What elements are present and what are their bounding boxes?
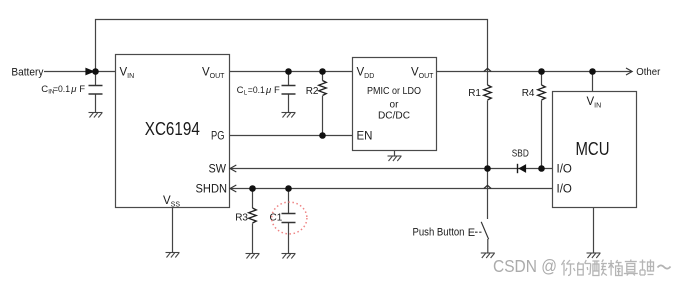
wire PMIC VOUT to Other [437,71,632,73]
wire VSS to ground [172,208,174,253]
crossover hop push button over SHDN line [484,185,491,188]
node R3 junction [249,185,256,192]
node R4 bottom junction [538,165,545,172]
svg-text:SHDN: SHDN [196,184,228,196]
diode SBD [518,164,527,173]
svg-text:E: E [468,227,475,239]
svg-text:XC6194: XC6194 [145,119,200,139]
wire MCU gnd [593,208,595,254]
svg-text:PMIC or LDO: PMIC or LDO [367,86,421,97]
node R2 bottom junction [319,132,326,139]
wire push button top [487,169,489,220]
wire R3 to ground [252,223,254,253]
wire R2 bottom [322,96,324,136]
node MCU VIN junction [589,68,596,75]
wire battery to VIN [44,71,116,73]
resistor R1 [484,85,492,100]
svg-text:DC/DC: DC/DC [378,111,410,122]
resistor R2 [319,81,327,96]
wire R1 bottom [487,100,489,168]
wire R3 top [252,189,254,209]
battery arrow [85,68,95,76]
svg-text:SW: SW [209,164,227,176]
svg-text:R1: R1 [468,88,481,99]
svg-text:EN: EN [357,131,373,143]
node C1 junction [285,185,292,192]
ground R3 [246,254,260,259]
ground VSS [166,253,180,258]
svg-text:Push Button: Push Button [413,227,465,239]
svg-text:MCU: MCU [576,139,610,159]
wire R1 top [487,72,489,86]
svg-text:μ: μ [265,85,272,96]
wire top battery loop [96,20,488,72]
svg-text:Battery: Battery [11,67,43,79]
capacitor CL [282,86,296,95]
wire CIN to ground [95,94,97,113]
wire CL vertical [288,72,290,86]
svg-text:F: F [79,84,85,95]
wire SW line [230,168,553,170]
svg-text:=0.1: =0.1 [248,85,265,96]
wire CL to ground [288,94,290,113]
capacitor CL label [237,85,280,97]
wire C1 to ground [288,223,290,254]
svg-text:R2: R2 [306,86,319,97]
capacitor C1 [282,214,296,223]
resistor R4 [538,85,546,100]
node R4 top junction [538,68,545,75]
node SW pushbutton junction [484,165,491,172]
crossover hop battery line over VOUT rail [484,68,491,71]
node battery junction [92,68,99,75]
ground PMIC [388,156,402,161]
wire PG to EN [230,135,353,137]
svg-text:CSDN @: CSDN @ [493,256,557,276]
svg-text:R4: R4 [522,88,535,99]
svg-text:Other: Other [636,67,661,78]
arrow to Other [626,68,632,75]
wire SHDN line [230,188,553,190]
arrow into SW pin [230,165,236,172]
svg-text:F: F [274,85,280,96]
wire C1 top [288,189,290,214]
capacitor CIN [89,86,103,95]
svg-text:μ: μ [70,84,77,95]
red highlight ellipse around C1 [272,202,307,234]
IC XC6194 box [116,55,230,208]
ground MCU [587,253,601,258]
svg-text:C: C [237,85,244,96]
svg-text:or: or [390,100,400,111]
svg-text:=0.1: =0.1 [53,84,70,95]
node CL junction [285,68,292,75]
push button switch lever [481,222,488,239]
arrow into SHDN pin [230,185,236,192]
wire R4 top [541,72,543,86]
svg-text:R3: R3 [235,212,248,223]
IC PMIC box [353,58,437,151]
wire CIN vertical [95,72,97,86]
wire push button bottom [487,239,489,253]
wire PMIC gnd [394,151,396,157]
wire R4 bottom [541,100,543,168]
wire MCU VIN drop [592,72,594,92]
ground CIN [89,113,103,118]
svg-text:SBD: SBD [512,149,529,160]
wire XC6194 VOUT to PMIC VDD [230,71,353,73]
ground push button [481,253,495,258]
ground CL [282,113,296,118]
capacitor CIN label [41,84,85,96]
node R2 top junction [319,68,326,75]
push button dashed link [475,231,482,233]
svg-text:PG: PG [211,131,225,143]
svg-text:I/O: I/O [557,184,572,196]
ground C1 [282,254,296,259]
watermark tilde [658,265,671,268]
svg-text:C1: C1 [270,212,283,223]
watermark CJK glyphs [562,260,654,276]
svg-text:I/O: I/O [557,164,572,176]
IC MCU box [553,92,637,208]
resistor R3 [249,208,257,223]
wire R2 top [322,72,324,81]
